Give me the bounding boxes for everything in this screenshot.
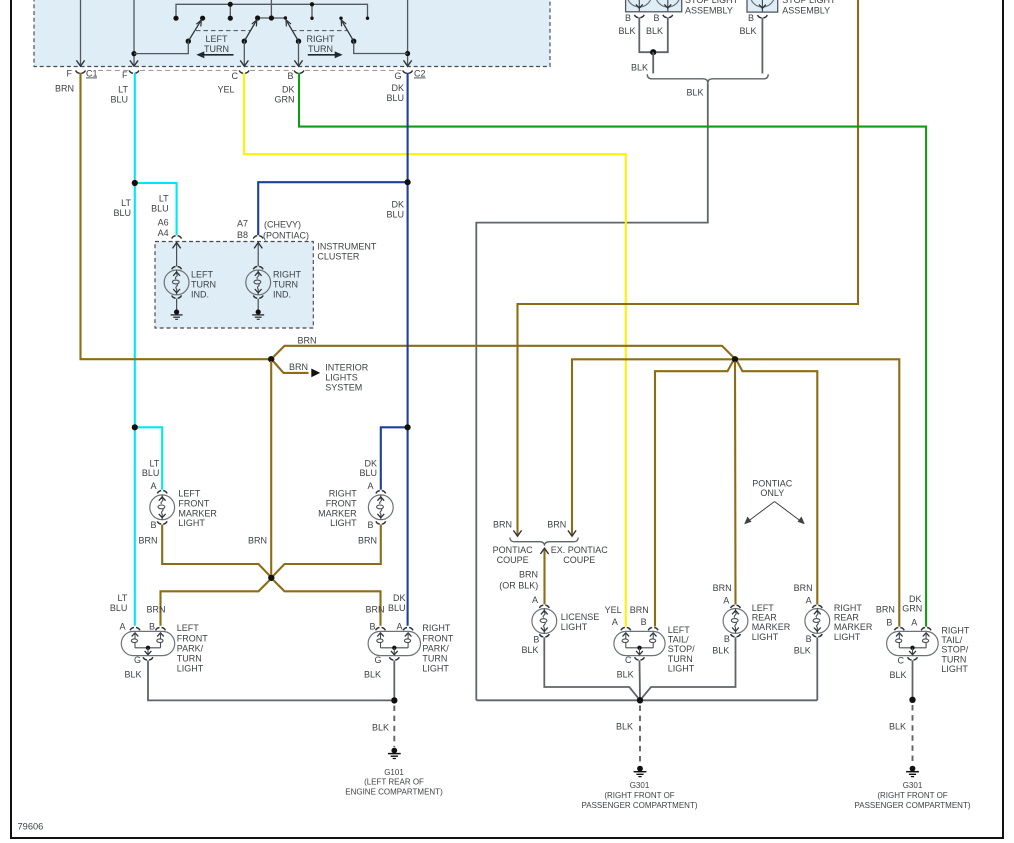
svg-text:BLK: BLK bbox=[739, 26, 756, 36]
pontiac only left arrow bbox=[744, 502, 774, 525]
switch feed wire G bbox=[407, 0, 409, 66]
junction B node bbox=[732, 356, 738, 362]
svg-text:B: B bbox=[150, 520, 156, 530]
svg-text:COUPE: COUPE bbox=[497, 555, 529, 565]
svg-text:(PONTIAC): (PONTIAC) bbox=[263, 231, 309, 241]
stop light assembly box 1 bbox=[626, 0, 682, 12]
svg-text:B: B bbox=[653, 13, 659, 23]
svg-text:LT: LT bbox=[150, 458, 160, 468]
switch top bus bbox=[176, 4, 368, 18]
node LT BLU cluster branch bbox=[132, 180, 138, 186]
svg-text:A: A bbox=[723, 596, 729, 606]
dashed BLK to G301 bbox=[639, 706, 641, 765]
svg-text:LEFT: LEFT bbox=[178, 489, 201, 499]
wire BRN junction B right branch to right tail pin B bbox=[738, 359, 899, 626]
right turn arrow bbox=[308, 51, 343, 58]
svg-text:LIGHT: LIGHT bbox=[752, 632, 779, 642]
node DK BLU cluster branch bbox=[405, 179, 411, 185]
left front park/turn light bbox=[121, 628, 174, 661]
svg-text:DK: DK bbox=[393, 593, 406, 603]
stop light bulb 3 (cut off) bbox=[750, 0, 775, 12]
cluster pin A7/B8 bbox=[253, 236, 263, 239]
right rear marker light bbox=[805, 605, 830, 637]
svg-text:BRN: BRN bbox=[547, 519, 566, 529]
svg-text:BLU: BLU bbox=[386, 209, 404, 219]
svg-text:A: A bbox=[150, 481, 156, 491]
wire BRN junction B to left tail pin B bbox=[655, 362, 733, 627]
G301 node bbox=[637, 697, 643, 703]
svg-text:BLU: BLU bbox=[388, 603, 406, 613]
svg-text:DK: DK bbox=[909, 594, 922, 604]
svg-text:BRN: BRN bbox=[248, 536, 267, 546]
svg-text:B: B bbox=[806, 634, 812, 644]
svg-text:BLU: BLU bbox=[151, 203, 169, 213]
bus drop left-mid bbox=[229, 4, 231, 18]
svg-text:TURN: TURN bbox=[422, 654, 447, 664]
svg-text:BLK: BLK bbox=[364, 669, 381, 679]
svg-text:INTERIOR: INTERIOR bbox=[325, 362, 369, 372]
left front marker light bbox=[150, 491, 175, 524]
svg-text:LT: LT bbox=[159, 194, 169, 204]
svg-text:ASSEMBLY: ASSEMBLY bbox=[782, 5, 830, 15]
svg-text:LIGHT: LIGHT bbox=[941, 664, 968, 674]
wire BRN junction A to junction B bbox=[274, 346, 735, 359]
svg-text:YEL: YEL bbox=[217, 85, 234, 95]
node LT BLU marker branch bbox=[132, 424, 138, 430]
svg-text:PONTIAC: PONTIAC bbox=[752, 478, 793, 488]
wire BLK left rear marker to G301 bus bbox=[640, 637, 736, 700]
svg-text:A: A bbox=[806, 596, 812, 606]
svg-text:A7: A7 bbox=[237, 219, 248, 229]
svg-text:B8: B8 bbox=[237, 230, 248, 240]
wire BLK right tail C down bbox=[912, 660, 914, 698]
right tail/stop/turn light bbox=[887, 628, 939, 661]
pin B bulb1 bbox=[634, 15, 644, 18]
wire BRN X junction to right park/turn pin B bbox=[274, 580, 381, 626]
svg-text:B: B bbox=[641, 617, 647, 627]
wire BLK from brace down-left to G301 bus bbox=[476, 83, 708, 700]
svg-text:A: A bbox=[532, 595, 538, 605]
wire BRN junction B down to left rear marker bbox=[734, 362, 737, 605]
svg-text:B: B bbox=[369, 622, 375, 632]
arrow into pin F/C1 bbox=[76, 60, 84, 66]
svg-text:LIGHTS: LIGHTS bbox=[325, 372, 358, 382]
svg-text:LIGHT: LIGHT bbox=[668, 664, 695, 674]
svg-text:BLK: BLK bbox=[889, 670, 906, 680]
wire LT BLU branch to left front marker bbox=[135, 427, 162, 490]
switch center feed wire bbox=[270, 0, 272, 18]
wire DK BLU branch to instrument cluster A7/B8 bbox=[258, 182, 407, 235]
svg-text:FRONT: FRONT bbox=[178, 499, 209, 509]
svg-text:(LEFT REAR OF: (LEFT REAR OF bbox=[364, 778, 424, 787]
svg-text:A: A bbox=[612, 617, 618, 627]
mechanical link dashes right bbox=[292, 30, 347, 32]
svg-text:C2: C2 bbox=[414, 69, 426, 79]
svg-text:BRN: BRN bbox=[630, 605, 649, 615]
pin G bbox=[403, 70, 413, 73]
svg-text:STOP/: STOP/ bbox=[668, 644, 695, 654]
brace joining license feeds bbox=[510, 538, 578, 546]
wire BLK license to G301 node bbox=[544, 637, 640, 700]
svg-text:RIGHT: RIGHT bbox=[422, 623, 451, 633]
cluster pin A6/A4 bbox=[172, 236, 182, 239]
svg-text:RIGHT: RIGHT bbox=[834, 603, 863, 613]
turn signal switch box bbox=[34, 0, 550, 67]
bus drop right-mid bbox=[311, 4, 313, 18]
wire BRN from top right down-left to Pontiac coupe license feed bbox=[518, 0, 859, 536]
svg-text:MARKER: MARKER bbox=[752, 622, 791, 632]
left rear marker light bbox=[723, 605, 748, 637]
svg-text:FRONT: FRONT bbox=[326, 499, 357, 509]
svg-text:B: B bbox=[724, 634, 730, 644]
node on F feed bbox=[131, 51, 136, 56]
right G301 node bbox=[909, 697, 915, 703]
C1-C2 connector dashed line bbox=[98, 69, 402, 71]
contact bridge at center feed bbox=[258, 17, 286, 19]
wire YEL: pin C to left tail pin A bbox=[244, 73, 626, 627]
svg-text:B: B bbox=[886, 618, 892, 628]
ground right G301 bbox=[906, 766, 919, 777]
svg-text:B: B bbox=[367, 520, 373, 530]
svg-text:PARK/: PARK/ bbox=[422, 643, 449, 653]
wire BRN branch to interior lights system bbox=[274, 362, 309, 373]
pin B bulb2 bbox=[663, 15, 673, 18]
bus node left bbox=[228, 2, 233, 7]
ground G301 bbox=[634, 766, 647, 777]
svg-text:A6: A6 bbox=[158, 217, 169, 227]
svg-text:A: A bbox=[396, 622, 402, 632]
wire DK GRN: pin B to right tail pin A bbox=[299, 73, 926, 627]
svg-text:G101: G101 bbox=[384, 768, 404, 777]
svg-text:BRN: BRN bbox=[138, 536, 157, 546]
svg-text:BLK: BLK bbox=[889, 722, 906, 732]
svg-text:LEFT: LEFT bbox=[205, 34, 228, 44]
wire BLK down from join to brace bbox=[652, 52, 654, 73]
svg-text:BLK: BLK bbox=[617, 669, 634, 679]
svg-text:(OR BLK): (OR BLK) bbox=[499, 580, 538, 590]
svg-text:LIGHT: LIGHT bbox=[834, 632, 861, 642]
svg-text:RIGHT: RIGHT bbox=[941, 625, 970, 635]
svg-text:G: G bbox=[394, 71, 401, 81]
instrument cluster box bbox=[155, 242, 313, 329]
svg-text:ENGINE COMPARTMENT): ENGINE COMPARTMENT) bbox=[345, 787, 443, 796]
switch feed wire F bbox=[133, 0, 135, 66]
svg-text:DK: DK bbox=[282, 85, 295, 95]
wire BLK right park/turn G to G101 node bbox=[393, 660, 395, 700]
right front park/turn light bbox=[368, 628, 420, 661]
svg-text:BLU: BLU bbox=[113, 208, 131, 218]
wire BRN X junction to left park/turn pin B bbox=[161, 580, 270, 626]
svg-text:A: A bbox=[911, 618, 917, 628]
bus node right bbox=[310, 2, 314, 6]
svg-text:BRN: BRN bbox=[146, 605, 165, 615]
wire LT BLU: pin F down to left park/turn pin A bbox=[134, 73, 136, 626]
svg-text:G301: G301 bbox=[630, 781, 650, 790]
svg-text:STOP/: STOP/ bbox=[941, 645, 968, 655]
svg-text:RIGHT: RIGHT bbox=[307, 34, 336, 44]
ground G101 bbox=[388, 748, 401, 759]
node DK BLU marker branch bbox=[405, 424, 411, 430]
node on G feed bbox=[405, 51, 410, 56]
svg-text:MARKER: MARKER bbox=[178, 508, 217, 518]
svg-text:BRN: BRN bbox=[358, 536, 377, 546]
svg-text:(RIGHT FRONT OF: (RIGHT FRONT OF bbox=[604, 791, 674, 800]
pin F/C1 bbox=[76, 70, 86, 73]
svg-text:G: G bbox=[374, 655, 381, 665]
svg-text:A: A bbox=[119, 622, 125, 632]
svg-text:A4: A4 bbox=[158, 228, 169, 238]
svg-text:SYSTEM: SYSTEM bbox=[325, 383, 362, 393]
svg-text:C: C bbox=[898, 656, 905, 666]
left turn indicator lamp bbox=[164, 242, 189, 320]
wire BRN left front marker to X junction bbox=[162, 525, 269, 576]
svg-text:LT: LT bbox=[118, 593, 128, 603]
svg-text:C: C bbox=[232, 71, 239, 81]
svg-text:BLK: BLK bbox=[124, 669, 141, 679]
svg-text:G: G bbox=[134, 655, 141, 665]
svg-text:B: B bbox=[149, 622, 155, 632]
svg-text:MARKER: MARKER bbox=[318, 508, 357, 518]
svg-text:BLK: BLK bbox=[631, 63, 648, 73]
switch arm 2 (pin C wiper) bbox=[240, 20, 257, 66]
svg-text:BRN: BRN bbox=[493, 519, 512, 529]
svg-text:LEFT: LEFT bbox=[668, 625, 691, 635]
license light bbox=[532, 605, 557, 637]
svg-text:BRN: BRN bbox=[794, 583, 813, 593]
svg-text:GRN: GRN bbox=[275, 94, 295, 104]
svg-text:COUPE: COUPE bbox=[563, 555, 595, 565]
switch arm 1 (pin F wiper) bbox=[134, 20, 201, 54]
switch arm 3 (pin B wiper) bbox=[286, 20, 303, 66]
svg-text:PARK/: PARK/ bbox=[177, 643, 204, 653]
svg-text:C1: C1 bbox=[86, 69, 98, 79]
wire BRN junction B to right rear marker bbox=[737, 362, 817, 605]
svg-text:BLK: BLK bbox=[372, 723, 389, 733]
pin F bbox=[129, 70, 139, 73]
svg-text:LEFT: LEFT bbox=[177, 623, 200, 633]
wire BRN junction B left branch to ex pontiac coupe feed bbox=[572, 359, 732, 536]
interior lights arrow bbox=[311, 369, 320, 378]
wire DK BLU: pin G down to right park/turn pin A bbox=[407, 73, 409, 626]
left tail/stop/turn light bbox=[614, 628, 665, 661]
svg-text:PONTIAC: PONTIAC bbox=[493, 545, 534, 555]
svg-text:BLU: BLU bbox=[110, 94, 128, 104]
G301 ground bus bbox=[476, 699, 817, 701]
svg-text:LIGHT: LIGHT bbox=[177, 664, 204, 674]
svg-text:BLU: BLU bbox=[359, 468, 377, 478]
wire BRN right front marker to X junction bbox=[274, 525, 381, 576]
svg-text:TURN: TURN bbox=[668, 654, 693, 664]
svg-text:LEFT: LEFT bbox=[191, 270, 214, 280]
stop light bulb 2 (cut off) bbox=[655, 0, 680, 12]
svg-text:C: C bbox=[625, 655, 632, 665]
svg-text:LT: LT bbox=[121, 198, 131, 208]
svg-text:TAIL/: TAIL/ bbox=[668, 635, 689, 645]
svg-text:REAR: REAR bbox=[834, 613, 860, 623]
mechanical link dashes left bbox=[196, 30, 251, 32]
svg-text:REAR: REAR bbox=[752, 613, 778, 623]
wire BLK bulb3 down to brace bbox=[761, 18, 763, 74]
svg-text:DK: DK bbox=[391, 83, 404, 93]
svg-text:LICENSE: LICENSE bbox=[561, 612, 600, 622]
svg-text:FRONT: FRONT bbox=[422, 633, 453, 643]
svg-text:BLK: BLK bbox=[686, 88, 703, 98]
svg-text:LIGHT: LIGHT bbox=[561, 622, 588, 632]
dashed BLK to right G301 bbox=[912, 705, 914, 764]
pontiac only right arrow bbox=[775, 502, 805, 525]
svg-text:RIGHT: RIGHT bbox=[329, 489, 358, 499]
svg-text:RIGHT: RIGHT bbox=[273, 270, 302, 280]
svg-text:EX. PONTIAC: EX. PONTIAC bbox=[551, 545, 609, 555]
svg-text:TURN: TURN bbox=[941, 654, 966, 664]
svg-text:BLK: BLK bbox=[618, 26, 635, 36]
pin B bbox=[294, 70, 304, 73]
wire BLK left tail C to G301 node bbox=[639, 660, 642, 698]
stop light bulb 1 (cut off) bbox=[627, 0, 652, 12]
stop light assembly box 2 bbox=[747, 0, 778, 12]
svg-text:TAIL/: TAIL/ bbox=[941, 635, 962, 645]
svg-text:YEL: YEL bbox=[605, 605, 622, 615]
svg-text:BLU: BLU bbox=[110, 603, 128, 613]
pin B bulb3 bbox=[758, 15, 768, 18]
svg-text:MARKER: MARKER bbox=[834, 622, 873, 632]
wire BLK right rear marker down to G301 bus bbox=[816, 637, 818, 700]
svg-text:TURN: TURN bbox=[308, 44, 333, 54]
svg-text:FRONT: FRONT bbox=[177, 633, 208, 643]
arrow at end of ex pontiac coupe feed bbox=[568, 530, 576, 536]
svg-text:BLU: BLU bbox=[142, 468, 160, 478]
arrow into pin G bbox=[404, 60, 412, 66]
svg-text:DK: DK bbox=[364, 458, 377, 468]
arrow at end of Pontiac coupe feed bbox=[513, 530, 521, 536]
wire BLK bulb1 bbox=[639, 17, 668, 52]
svg-text:F: F bbox=[122, 70, 128, 80]
switch feed wire F/C1 bbox=[80, 0, 82, 66]
svg-text:GRN: GRN bbox=[902, 604, 922, 614]
svg-text:79606: 79606 bbox=[18, 822, 44, 832]
svg-text:(CHEVY): (CHEVY) bbox=[264, 220, 301, 230]
svg-text:BRN: BRN bbox=[519, 570, 538, 580]
svg-text:BRN: BRN bbox=[298, 336, 317, 346]
svg-text:B: B bbox=[625, 13, 631, 23]
svg-text:B: B bbox=[287, 71, 293, 81]
svg-text:TURN: TURN bbox=[177, 654, 202, 664]
svg-text:BRN: BRN bbox=[55, 84, 74, 94]
node BLK stop lights join bbox=[650, 49, 656, 55]
svg-text:BRN: BRN bbox=[365, 605, 384, 615]
right front marker light bbox=[368, 491, 393, 524]
svg-text:ONLY: ONLY bbox=[760, 488, 784, 498]
svg-text:F: F bbox=[67, 69, 73, 79]
svg-text:B: B bbox=[748, 13, 754, 23]
svg-text:BRN: BRN bbox=[876, 604, 895, 614]
svg-text:DK: DK bbox=[391, 200, 404, 210]
svg-text:CLUSTER: CLUSTER bbox=[317, 252, 360, 262]
svg-text:G301: G301 bbox=[903, 781, 923, 790]
svg-text:BLK: BLK bbox=[646, 26, 663, 36]
G101 node bbox=[391, 697, 397, 703]
brace joining stop light grounds bbox=[647, 74, 768, 83]
svg-text:PASSENGER COMPARTMENT): PASSENGER COMPARTMENT) bbox=[854, 801, 970, 810]
svg-text:BLK: BLK bbox=[712, 645, 729, 655]
svg-text:TURN: TURN bbox=[204, 44, 229, 54]
left turn arrow bbox=[196, 51, 233, 58]
svg-text:IND.: IND. bbox=[191, 289, 209, 299]
arrow up at brace output bbox=[540, 548, 548, 554]
svg-text:LIGHT: LIGHT bbox=[178, 518, 205, 528]
svg-text:ASSEMBLY: ASSEMBLY bbox=[685, 5, 733, 15]
svg-text:PASSENGER COMPARTMENT): PASSENGER COMPARTMENT) bbox=[581, 801, 697, 810]
X junction node bbox=[268, 575, 274, 581]
switch arm 4 (pin G wiper) bbox=[341, 20, 407, 54]
wire LT BLU branch to instrument cluster A6/A4 bbox=[135, 183, 177, 235]
wire BRN: pin F/C1 down to junction A bbox=[81, 73, 269, 359]
svg-text:BLK: BLK bbox=[794, 645, 811, 655]
wire BRN junction A down to X junction bbox=[270, 361, 272, 575]
wire BLK left park/turn G to G101 node bbox=[148, 660, 391, 700]
svg-text:LIGHT: LIGHT bbox=[330, 518, 357, 528]
svg-text:BLK: BLK bbox=[521, 645, 538, 655]
arrow into pin F bbox=[130, 60, 138, 66]
svg-text:INSTRUMENT: INSTRUMENT bbox=[317, 242, 376, 252]
wire DK BLU branch to right front marker bbox=[381, 427, 408, 490]
junction A node bbox=[268, 356, 274, 362]
wire BRN brace to license light bbox=[543, 549, 545, 605]
contact dots row bbox=[173, 16, 178, 21]
pin C bbox=[239, 70, 249, 73]
svg-text:B: B bbox=[533, 635, 539, 645]
svg-text:BLK: BLK bbox=[616, 722, 633, 732]
svg-text:LT: LT bbox=[118, 85, 128, 95]
svg-text:TURN: TURN bbox=[191, 279, 216, 289]
svg-text:A: A bbox=[367, 481, 373, 491]
svg-text:BRN: BRN bbox=[289, 362, 308, 372]
dashed BLK to G101 bbox=[393, 706, 395, 748]
svg-text:BLU: BLU bbox=[386, 93, 404, 103]
svg-text:LIGHT: LIGHT bbox=[422, 664, 449, 674]
svg-text:TURN: TURN bbox=[273, 279, 298, 289]
right turn indicator lamp bbox=[246, 242, 271, 320]
svg-text:BRN: BRN bbox=[713, 583, 732, 593]
svg-text:LEFT: LEFT bbox=[752, 603, 775, 613]
svg-text:IND.: IND. bbox=[273, 289, 291, 299]
svg-text:(RIGHT FRONT OF: (RIGHT FRONT OF bbox=[877, 791, 947, 800]
